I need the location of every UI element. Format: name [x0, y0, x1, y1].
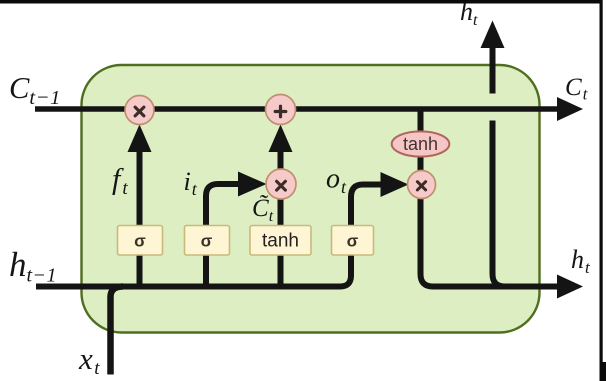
- svg-text:xt: xt: [78, 341, 100, 379]
- wire: candidate C-tilde vertical: [278, 172, 284, 284]
- svg-text:tanh: tanh: [262, 231, 299, 252]
- wire: top C(t-1) cell-state line: [35, 106, 559, 112]
- arrowhead f into multiply node: [128, 125, 152, 153]
- wire: candidate multiply to add node: [278, 149, 284, 170]
- add node on C line: [266, 95, 296, 125]
- screenshot border right: [600, 0, 603, 381]
- svg-text:Ct−1: Ct−1: [9, 71, 61, 109]
- wire: h(t) branch up lower segment with fillet: [493, 121, 506, 287]
- wire: bottom h(t-1) line curving up into o-gate sigma branch: [36, 185, 383, 287]
- multiply node on C line (forget): [125, 96, 154, 125]
- svg-text:tanh: tanh: [403, 134, 438, 154]
- svg-text:ht: ht: [460, 0, 478, 29]
- svg-text:Ct: Ct: [565, 74, 588, 104]
- screenshot border top: [0, 0, 602, 4]
- sigma box i gate: [185, 226, 230, 256]
- arrowhead into add node: [269, 125, 293, 153]
- screenshot corner mark bottom-right: [600, 362, 606, 381]
- svg-text:ht: ht: [571, 245, 591, 277]
- multiply node candidate (i * C-tilde): [266, 169, 296, 199]
- arrowhead h(t) output right: [557, 275, 583, 299]
- sigma box o gate: [332, 226, 374, 256]
- arrowhead h(t) up output: [481, 21, 505, 49]
- sigma box f gate: [118, 226, 163, 256]
- arrowhead C(t) output: [557, 97, 583, 121]
- svg-text:σ: σ: [201, 232, 213, 251]
- wire: x(t) input vertical: [111, 287, 124, 375]
- arrowhead o into output multiply node: [381, 172, 409, 197]
- svg-text:ht−1: ht−1: [9, 245, 57, 287]
- svg-text:σ: σ: [134, 232, 146, 251]
- wire: i gate vertical with curve to arrow: [206, 184, 238, 284]
- tanh ellipse on output branch: [392, 131, 450, 156]
- tanh box candidate: [250, 226, 311, 256]
- wire: output multiply down to h(t) line and right: [421, 198, 560, 287]
- wire: C line branch down through tanh to output multiply: [418, 109, 424, 172]
- arrowhead i into candidate multiply node: [238, 172, 267, 197]
- wire: f gate vertical: [137, 149, 143, 284]
- svg-text:σ: σ: [347, 232, 359, 251]
- cell body (green rounded rectangle): [82, 65, 540, 333]
- wire: h(t) branch upper segment above C line gap: [490, 45, 496, 94]
- multiply node output (o * tanh(C)): [408, 171, 436, 199]
